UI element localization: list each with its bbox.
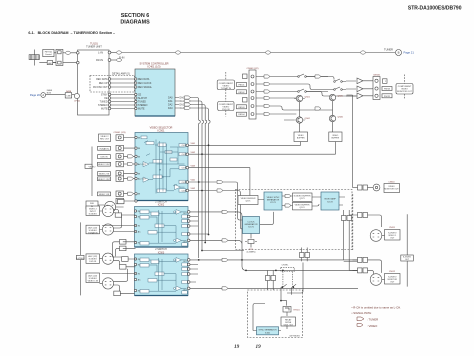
- svg-text:Page 21: Page 21: [404, 51, 415, 55]
- svg-text:A: A: [42, 93, 44, 97]
- svg-text:VIDEO AMP: VIDEO AMP: [324, 198, 336, 201]
- svg-text:S-VIDEO: S-VIDEO: [403, 257, 412, 259]
- svg-text:IC572: IC572: [327, 202, 333, 204]
- svg-text:SYNC SEPARATOR: SYNC SEPARATOR: [258, 329, 277, 332]
- svg-text:DVD IN: DVD IN: [222, 109, 230, 111]
- svg-text:CN503 (1/2): CN503 (1/2): [247, 68, 259, 70]
- svg-text:DA3: DA3: [180, 107, 185, 110]
- svg-text:AC OUT: AC OUT: [138, 163, 147, 166]
- svg-text:FB502: FB502: [239, 92, 246, 94]
- svg-text:V003: V003: [191, 165, 197, 167]
- svg-text:Q502: Q502: [305, 118, 311, 120]
- svg-text:CP101: CP101: [74, 101, 81, 103]
- svg-text:CN?/VIDEO: CN?/VIDEO: [289, 336, 300, 338]
- svg-text:PB/CB: PB/CB: [384, 89, 391, 91]
- svg-text:DA1: DA1: [168, 100, 173, 103]
- svg-text:R-IN: R-IN: [119, 56, 124, 60]
- svg-text:V001: V001: [191, 180, 197, 182]
- svg-text:Q505: Q505: [338, 96, 344, 98]
- svg-text:DATA: DATA: [66, 90, 72, 93]
- svg-text:DA3: DA3: [168, 107, 173, 110]
- svg-text:OUT: OUT: [182, 190, 187, 192]
- svg-text:CE: CE: [138, 95, 142, 97]
- svg-text:FB503: FB503: [239, 107, 246, 109]
- svg-text:BUFFER: BUFFER: [332, 138, 340, 140]
- svg-text:GENERATOR: GENERATOR: [245, 223, 258, 226]
- svg-text:DA0: DA0: [168, 97, 173, 100]
- svg-text:IC571: IC571: [270, 202, 276, 204]
- svg-text:(4.43MHz): (4.43MHz): [247, 251, 256, 253]
- svg-text:AM: AM: [48, 62, 51, 65]
- svg-text:Q601, 602: Q601, 602: [284, 325, 294, 327]
- svg-text:REC SIGNAL: REC SIGNAL: [138, 86, 153, 89]
- svg-text:DA2: DA2: [168, 104, 173, 107]
- svg-text:: TUNER: : TUNER: [367, 318, 378, 322]
- svg-text:TUNER UNIT: TUNER UNIT: [86, 45, 102, 49]
- svg-text:IC501: IC501: [158, 129, 165, 133]
- svg-text:CN510: CN510: [388, 182, 395, 184]
- svg-text:19: 19: [256, 344, 262, 350]
- svg-text:RY601: RY601: [294, 310, 301, 312]
- svg-text:SEPARATOR: SEPARATOR: [267, 199, 280, 202]
- svg-text:MUTE: MUTE: [138, 109, 145, 111]
- svg-text:MONITOR OUT: MONITOR OUT: [384, 189, 399, 191]
- svg-text:BUS: BUS: [47, 93, 52, 95]
- svg-text:SECTION 6: SECTION 6: [121, 13, 149, 19]
- svg-text:OUT: OUT: [182, 145, 187, 147]
- svg-text:V002: V002: [191, 188, 197, 190]
- svg-text:IC571: IC571: [248, 227, 254, 229]
- svg-text:VIDEO 1 OUT: VIDEO 1 OUT: [98, 179, 111, 181]
- svg-text:REC DATA: REC DATA: [138, 78, 150, 81]
- svg-text:DA2: DA2: [180, 104, 185, 107]
- svg-text:OE: OE: [104, 98, 108, 100]
- svg-text:REC DATA: REC DATA: [96, 78, 108, 81]
- svg-text:VIDEO: VIDEO: [89, 166, 96, 168]
- svg-text:DA1: DA1: [180, 100, 185, 103]
- svg-text:VIDEO 1 IN: VIDEO 1 IN: [88, 281, 99, 283]
- svg-text:ST-BY: ST-BY: [101, 95, 108, 97]
- svg-text:SLATCH: SLATCH: [138, 97, 147, 100]
- svg-text:B: B: [398, 51, 400, 55]
- svg-text:FB501: FB501: [239, 85, 246, 87]
- svg-text:TUNED: TUNED: [100, 102, 108, 104]
- svg-text:FM OSC OUT: FM OSC OUT: [93, 87, 108, 89]
- svg-text:IC601: IC601: [265, 332, 271, 334]
- svg-text:VIDEO 2 OUT: VIDEO 2 OUT: [98, 164, 111, 166]
- svg-text:STEREO: STEREO: [98, 105, 108, 107]
- svg-text:TV/SAT IN: TV/SAT IN: [99, 147, 109, 150]
- svg-text:DVD IN: DVD IN: [101, 157, 108, 159]
- svg-text:REC OUT: REC OUT: [100, 139, 110, 141]
- svg-text:V002: V002: [191, 152, 197, 154]
- svg-text:IC401 (1/3): IC401 (1/3): [148, 65, 161, 69]
- svg-text:DETAIL AMP (S): DETAIL AMP (S): [112, 73, 130, 76]
- svg-text:STEREO: STEREO: [138, 105, 148, 107]
- svg-text:6-1. BLOCK DIAGRAM – TUNER: 6-1. BLOCK DIAGRAM – TUNER/VIDEO Section…: [28, 31, 115, 35]
- svg-text:• SIGNAL PATH: • SIGNAL PATH: [352, 311, 372, 315]
- svg-text:PR/CR: PR/CR: [384, 96, 391, 98]
- svg-text:DVD IN: DVD IN: [89, 261, 96, 263]
- svg-text:MONITOR OUT: MONITOR OUT: [397, 91, 412, 93]
- svg-text:Q506: Q506: [338, 117, 344, 119]
- svg-text:L-IN: L-IN: [98, 51, 103, 55]
- svg-text:FR-IN: FR-IN: [96, 58, 103, 62]
- svg-text:IC502: IC502: [158, 204, 165, 207]
- svg-text:STR-DA1000ES/DB790: STR-DA1000ES/DB790: [408, 6, 462, 12]
- svg-text:V001: V001: [191, 143, 197, 145]
- svg-text:S-VIDEO: S-VIDEO: [89, 214, 98, 216]
- svg-text:Coaxial: Coaxial: [45, 54, 52, 56]
- svg-text:• R-CH is omitted due to same: • R-CH is omitted due to same as L-CH.: [352, 306, 402, 310]
- svg-text:BUFFER: BUFFER: [297, 138, 305, 140]
- svg-text:FB504: FB504: [239, 114, 246, 116]
- svg-text:OUT: OUT: [182, 168, 187, 170]
- svg-text:DA0: DA0: [180, 97, 185, 100]
- svg-text:S-VIDEO: S-VIDEO: [76, 258, 85, 260]
- svg-text:AC OUT: AC OUT: [138, 178, 147, 181]
- svg-text:TV/SAT IN: TV/SAT IN: [88, 231, 98, 234]
- svg-text:IC503: IC503: [158, 251, 165, 254]
- svg-text:REC UP: REC UP: [99, 83, 108, 85]
- svg-text:Q501: Q501: [305, 97, 311, 99]
- svg-text:CN501 (1/3): CN501 (1/3): [114, 132, 126, 134]
- svg-text:DIAGRAMS: DIAGRAMS: [120, 20, 150, 26]
- svg-text:OUT: OUT: [182, 182, 187, 184]
- svg-text:CNTRL: CNTRL: [282, 264, 290, 266]
- svg-text:CN511: CN511: [389, 227, 396, 229]
- svg-text:CN512: CN512: [389, 271, 396, 273]
- svg-text:OUT: OUT: [182, 154, 187, 156]
- svg-text:MUTE: MUTE: [101, 109, 108, 111]
- svg-text:TUNED: TUNED: [138, 102, 146, 104]
- svg-text:TUNER: TUNER: [384, 48, 393, 52]
- svg-text:VIDEO 1 IN: VIDEO 1 IN: [99, 194, 110, 196]
- svg-text:19: 19: [234, 344, 240, 350]
- svg-text:TV/SAT IN: TV/SAT IN: [221, 87, 232, 90]
- svg-text:: VIDEO: : VIDEO: [367, 324, 378, 328]
- svg-text:REC CLOCK: REC CLOCK: [138, 83, 152, 85]
- svg-text:CN506: CN506: [373, 75, 381, 77]
- svg-text:Page 20: Page 20: [30, 93, 41, 97]
- svg-text:VIDEO 2 IN: VIDEO 2 IN: [99, 174, 110, 176]
